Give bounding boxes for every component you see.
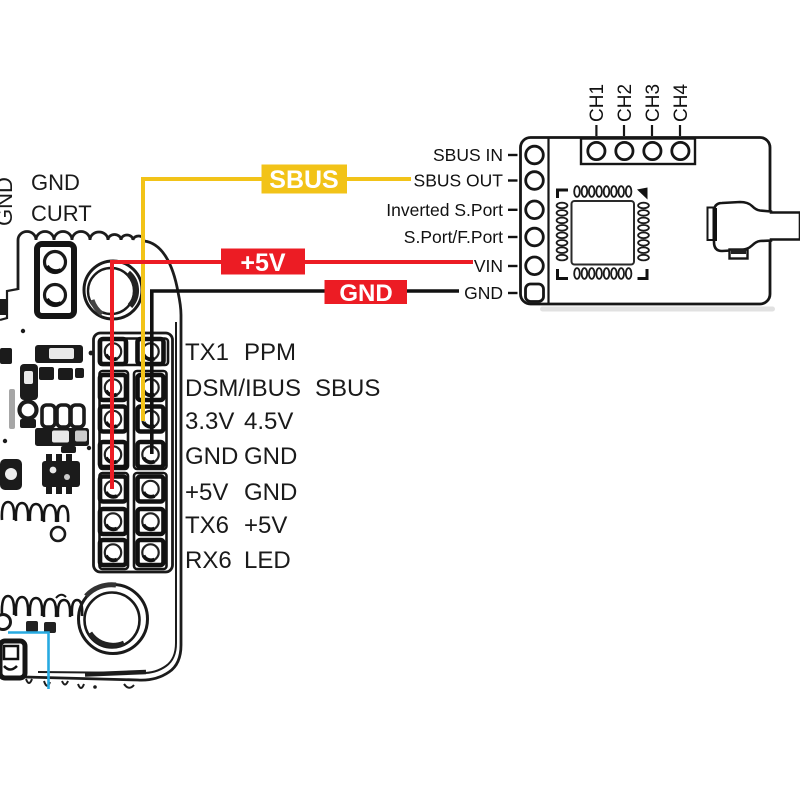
IC U1	[572, 201, 635, 265]
svg-text:CH1: CH1	[587, 84, 608, 122]
pad GND (lower)	[138, 477, 164, 502]
board bottom edge drips	[26, 679, 134, 689]
svg-text:LED: LED	[244, 547, 291, 574]
capacitor C2	[0, 348, 12, 364]
SBUS label box	[262, 165, 348, 195]
inductor coil row A	[2, 502, 68, 522]
svg-text:GND: GND	[185, 443, 238, 470]
pads	[526, 146, 544, 164]
pad LED	[138, 540, 164, 565]
pin label dashes	[508, 155, 518, 293]
resistor R3	[75, 368, 84, 378]
pad TX1	[100, 339, 126, 364]
black GND wire	[152, 291, 459, 454]
mounting hole top	[84, 261, 142, 319]
svg-text:TX1: TX1	[185, 339, 229, 366]
mounting hole bottom	[79, 585, 148, 654]
crystal Y1	[0, 459, 22, 490]
svg-text:4.5V: 4.5V	[244, 408, 293, 435]
svg-text:GND: GND	[244, 443, 297, 470]
capacitor C5	[71, 405, 84, 427]
bottom-left connector	[0, 641, 25, 678]
regulator U2	[20, 364, 38, 400]
svg-text:SBUS: SBUS	[269, 166, 338, 194]
capacitor C4	[57, 405, 70, 427]
resistor R1	[39, 367, 54, 380]
svg-text:Inverted S.Port: Inverted S.Port	[386, 200, 503, 220]
pad DSM/IBUS	[100, 375, 126, 400]
svg-text:CH3: CH3	[643, 84, 664, 122]
cyan wire	[8, 633, 49, 690]
capacitor C1	[35, 345, 83, 363]
pin header block	[94, 333, 173, 572]
receiver module body	[521, 138, 771, 305]
svg-text:CURT: CURT	[31, 201, 92, 226]
svg-text:3.3V: 3.3V	[185, 408, 234, 435]
svg-text:SBUS OUT: SBUS OUT	[414, 171, 504, 191]
red +5V wire	[112, 262, 473, 489]
connector J1 2-pin	[37, 244, 74, 316]
CH labels	[587, 84, 692, 122]
svg-text:CH2: CH2	[615, 84, 636, 122]
+5V label box	[221, 249, 305, 278]
header pads	[100, 339, 164, 565]
svg-text:SBUS IN: SBUS IN	[433, 145, 503, 165]
receiver CH pin strip	[581, 139, 695, 165]
capacitor C3	[42, 405, 55, 427]
antenna connector	[708, 202, 800, 259]
via hole	[20, 402, 37, 419]
receiver left pad strip	[526, 138, 549, 304]
pad SBUS	[138, 375, 164, 400]
flight controller board outline	[0, 232, 181, 681]
svg-text:TX6: TX6	[185, 512, 229, 539]
svg-text:GND: GND	[0, 177, 17, 226]
yellow SBUS wire	[143, 179, 411, 421]
SMD components left side	[0, 299, 93, 494]
resistor R2	[58, 368, 73, 380]
pad +5V (left)	[100, 477, 126, 502]
pad RX6	[100, 540, 126, 565]
pad 4.5V	[138, 407, 164, 432]
pad 3.3V	[100, 407, 126, 432]
pin table text	[185, 339, 380, 574]
pad TX6	[100, 509, 126, 534]
pad +5V (right)	[138, 509, 164, 534]
svg-text:PPM: PPM	[244, 339, 296, 366]
svg-text:VIN: VIN	[474, 256, 503, 276]
edge pad	[0, 299, 8, 315]
pad tab	[61, 446, 76, 453]
svg-text:SBUS: SBUS	[315, 375, 380, 402]
silkscreen marking	[9, 389, 15, 429]
IC corner brackets	[558, 190, 648, 279]
via ring mid	[51, 527, 65, 541]
svg-text:GND: GND	[244, 479, 297, 506]
receiver pin labels	[386, 145, 503, 303]
IC pin1 triangle	[637, 188, 648, 200]
IC U3 with legs	[42, 461, 80, 487]
svg-text:+5V: +5V	[240, 249, 286, 277]
GND label box	[325, 280, 408, 307]
svg-text:S.Port/F.Port: S.Port/F.Port	[404, 227, 503, 247]
CH tick marks	[596, 125, 680, 136]
svg-text:DSM/IBUS: DSM/IBUS	[185, 375, 301, 402]
svg-text:CH4: CH4	[671, 84, 692, 122]
receiver module shadow	[540, 307, 775, 312]
svg-text:GND: GND	[464, 283, 503, 303]
pad PPM	[138, 339, 164, 364]
pad GND (right)	[138, 442, 164, 467]
svg-text:+5V: +5V	[185, 479, 228, 506]
IC pins	[557, 186, 649, 279]
svg-text:RX6: RX6	[185, 547, 232, 574]
silkscreen O marking	[0, 615, 56, 634]
svg-text:GND: GND	[339, 280, 392, 307]
inductor coil row B	[2, 595, 82, 617]
pad GND (left)	[100, 442, 126, 467]
svg-text:GND: GND	[31, 170, 80, 195]
svg-text:+5V: +5V	[244, 512, 287, 539]
capacitor C6	[35, 428, 89, 446]
